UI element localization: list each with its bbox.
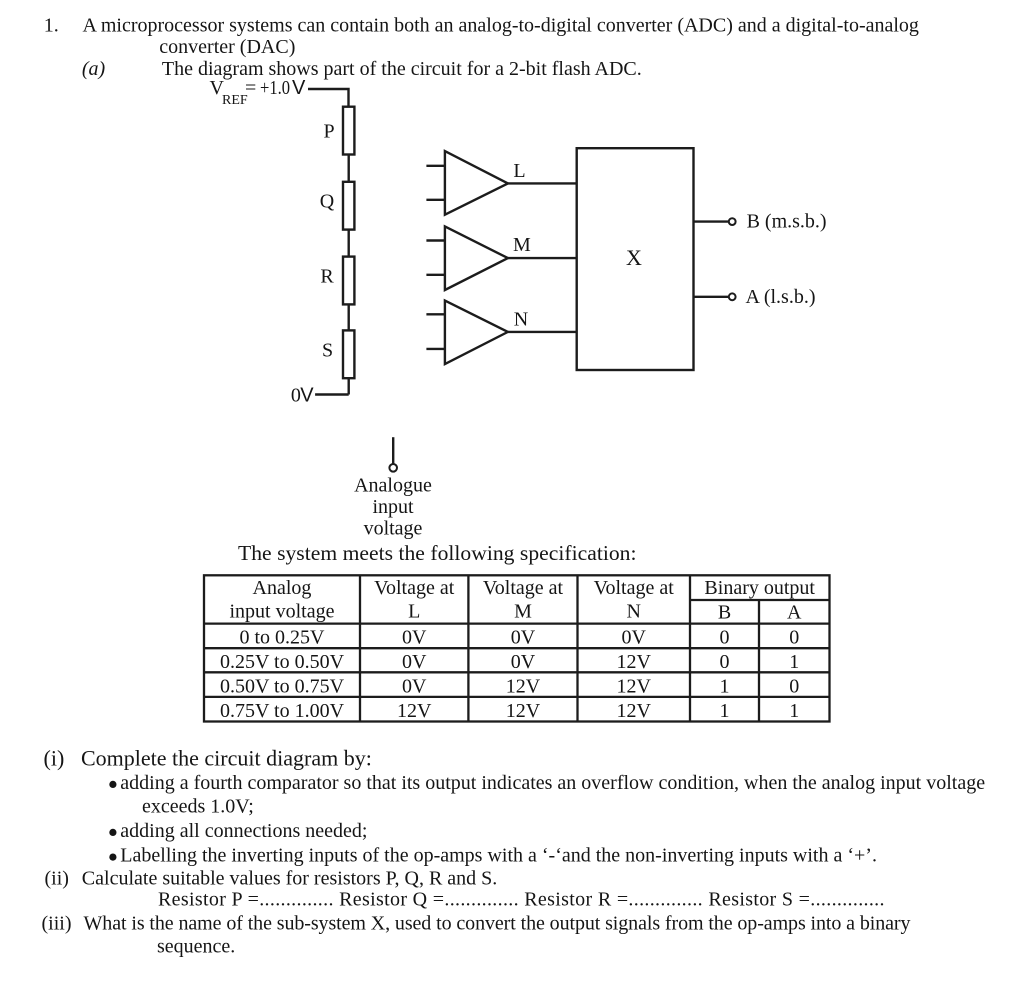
svg-text:exceeds 1.0V;: exceeds 1.0V; — [142, 795, 254, 817]
svg-text:Analog: Analog — [253, 577, 312, 599]
svg-text:V: V — [300, 385, 314, 407]
svg-text:1: 1 — [789, 651, 799, 673]
svg-text:12V: 12V — [506, 700, 541, 722]
svg-text:adding a fourth comparator so: adding a fourth comparator so that its o… — [120, 772, 985, 794]
svg-text:REF: REF — [222, 93, 248, 108]
svg-text:Labelling the inverting inputs: Labelling the inverting inputs of the op… — [120, 845, 877, 867]
svg-text:input voltage: input voltage — [230, 601, 335, 623]
svg-text:0V: 0V — [511, 627, 536, 649]
svg-text:=: = — [245, 77, 256, 99]
svg-text:Resistor P =.............. Res: Resistor P =.............. Resistor Q =.… — [158, 889, 885, 911]
svg-text:(ii): (ii) — [45, 868, 69, 890]
svg-text:0: 0 — [789, 675, 799, 697]
svg-text:12V: 12V — [616, 675, 651, 697]
svg-text:A: A — [787, 602, 802, 624]
svg-text:1.: 1. — [44, 15, 59, 37]
svg-text:0V: 0V — [621, 627, 646, 649]
svg-text:0: 0 — [789, 627, 799, 649]
svg-text:0.25V to 0.50V: 0.25V to 0.50V — [220, 651, 345, 673]
svg-text:adding all connections needed;: adding all connections needed; — [120, 820, 367, 842]
svg-text:Voltage at: Voltage at — [594, 577, 675, 599]
svg-text:0.50V to 0.75V: 0.50V to 0.75V — [220, 675, 345, 697]
svg-text:Voltage at: Voltage at — [374, 577, 455, 599]
svg-text:1: 1 — [720, 700, 730, 722]
svg-text:(i): (i) — [44, 746, 65, 771]
svg-text:Complete the circuit diagram b: Complete the circuit diagram by: — [81, 746, 372, 771]
svg-text:0: 0 — [720, 651, 730, 673]
svg-text:X: X — [626, 245, 642, 270]
svg-text:P: P — [323, 120, 334, 142]
svg-text:M: M — [513, 234, 531, 256]
svg-text:sequence.: sequence. — [157, 936, 235, 958]
svg-text:B: B — [718, 602, 731, 624]
svg-text:12V: 12V — [397, 700, 432, 722]
svg-text:The diagram shows part of the: The diagram shows part of the circuit fo… — [162, 58, 642, 80]
svg-text:V: V — [292, 77, 306, 99]
svg-text:Calculate suitable values for: Calculate suitable values for resistors … — [82, 868, 498, 890]
svg-text:converter (DAC): converter (DAC) — [159, 36, 295, 58]
svg-text:Binary output: Binary output — [704, 577, 815, 599]
svg-text:(iii): (iii) — [42, 913, 72, 935]
svg-text:Q: Q — [320, 190, 335, 212]
svg-text:1: 1 — [720, 675, 730, 697]
svg-text:0.75V to 1.00V: 0.75V to 1.00V — [220, 700, 345, 722]
svg-text:0V: 0V — [402, 675, 427, 697]
svg-text:voltage: voltage — [364, 517, 423, 539]
svg-text:Analogue: Analogue — [354, 474, 432, 496]
svg-text:0V: 0V — [402, 627, 427, 649]
svg-text:A microprocessor systems can c: A microprocessor systems can contain bot… — [83, 15, 919, 37]
svg-text:0 to 0.25V: 0 to 0.25V — [240, 627, 326, 649]
svg-text:N: N — [514, 309, 528, 331]
svg-text:0: 0 — [720, 627, 730, 649]
svg-text:M: M — [514, 601, 532, 623]
svg-text:What is the name of the sub-sy: What is the name of the sub-system X, us… — [84, 913, 911, 935]
svg-text:Voltage at: Voltage at — [483, 577, 564, 599]
svg-text:B (m.s.b.): B (m.s.b.) — [747, 211, 827, 233]
svg-text:1: 1 — [789, 700, 799, 722]
svg-text:12V: 12V — [506, 675, 541, 697]
svg-text:+1.0: +1.0 — [260, 77, 290, 99]
svg-text:R: R — [320, 266, 334, 288]
svg-text:12V: 12V — [616, 700, 651, 722]
svg-text:S: S — [322, 340, 333, 362]
svg-text:L: L — [513, 160, 525, 182]
svg-text:A (l.s.b.): A (l.s.b.) — [746, 286, 816, 308]
svg-text:0V: 0V — [511, 651, 536, 673]
svg-text:input: input — [372, 496, 414, 518]
svg-text:12V: 12V — [616, 651, 651, 673]
svg-text:0V: 0V — [402, 651, 427, 673]
svg-text:(a): (a) — [82, 58, 106, 80]
svg-text:L: L — [408, 601, 420, 623]
svg-text:The system meets the following: The system meets the following specifica… — [238, 541, 637, 565]
svg-text:N: N — [626, 601, 640, 623]
